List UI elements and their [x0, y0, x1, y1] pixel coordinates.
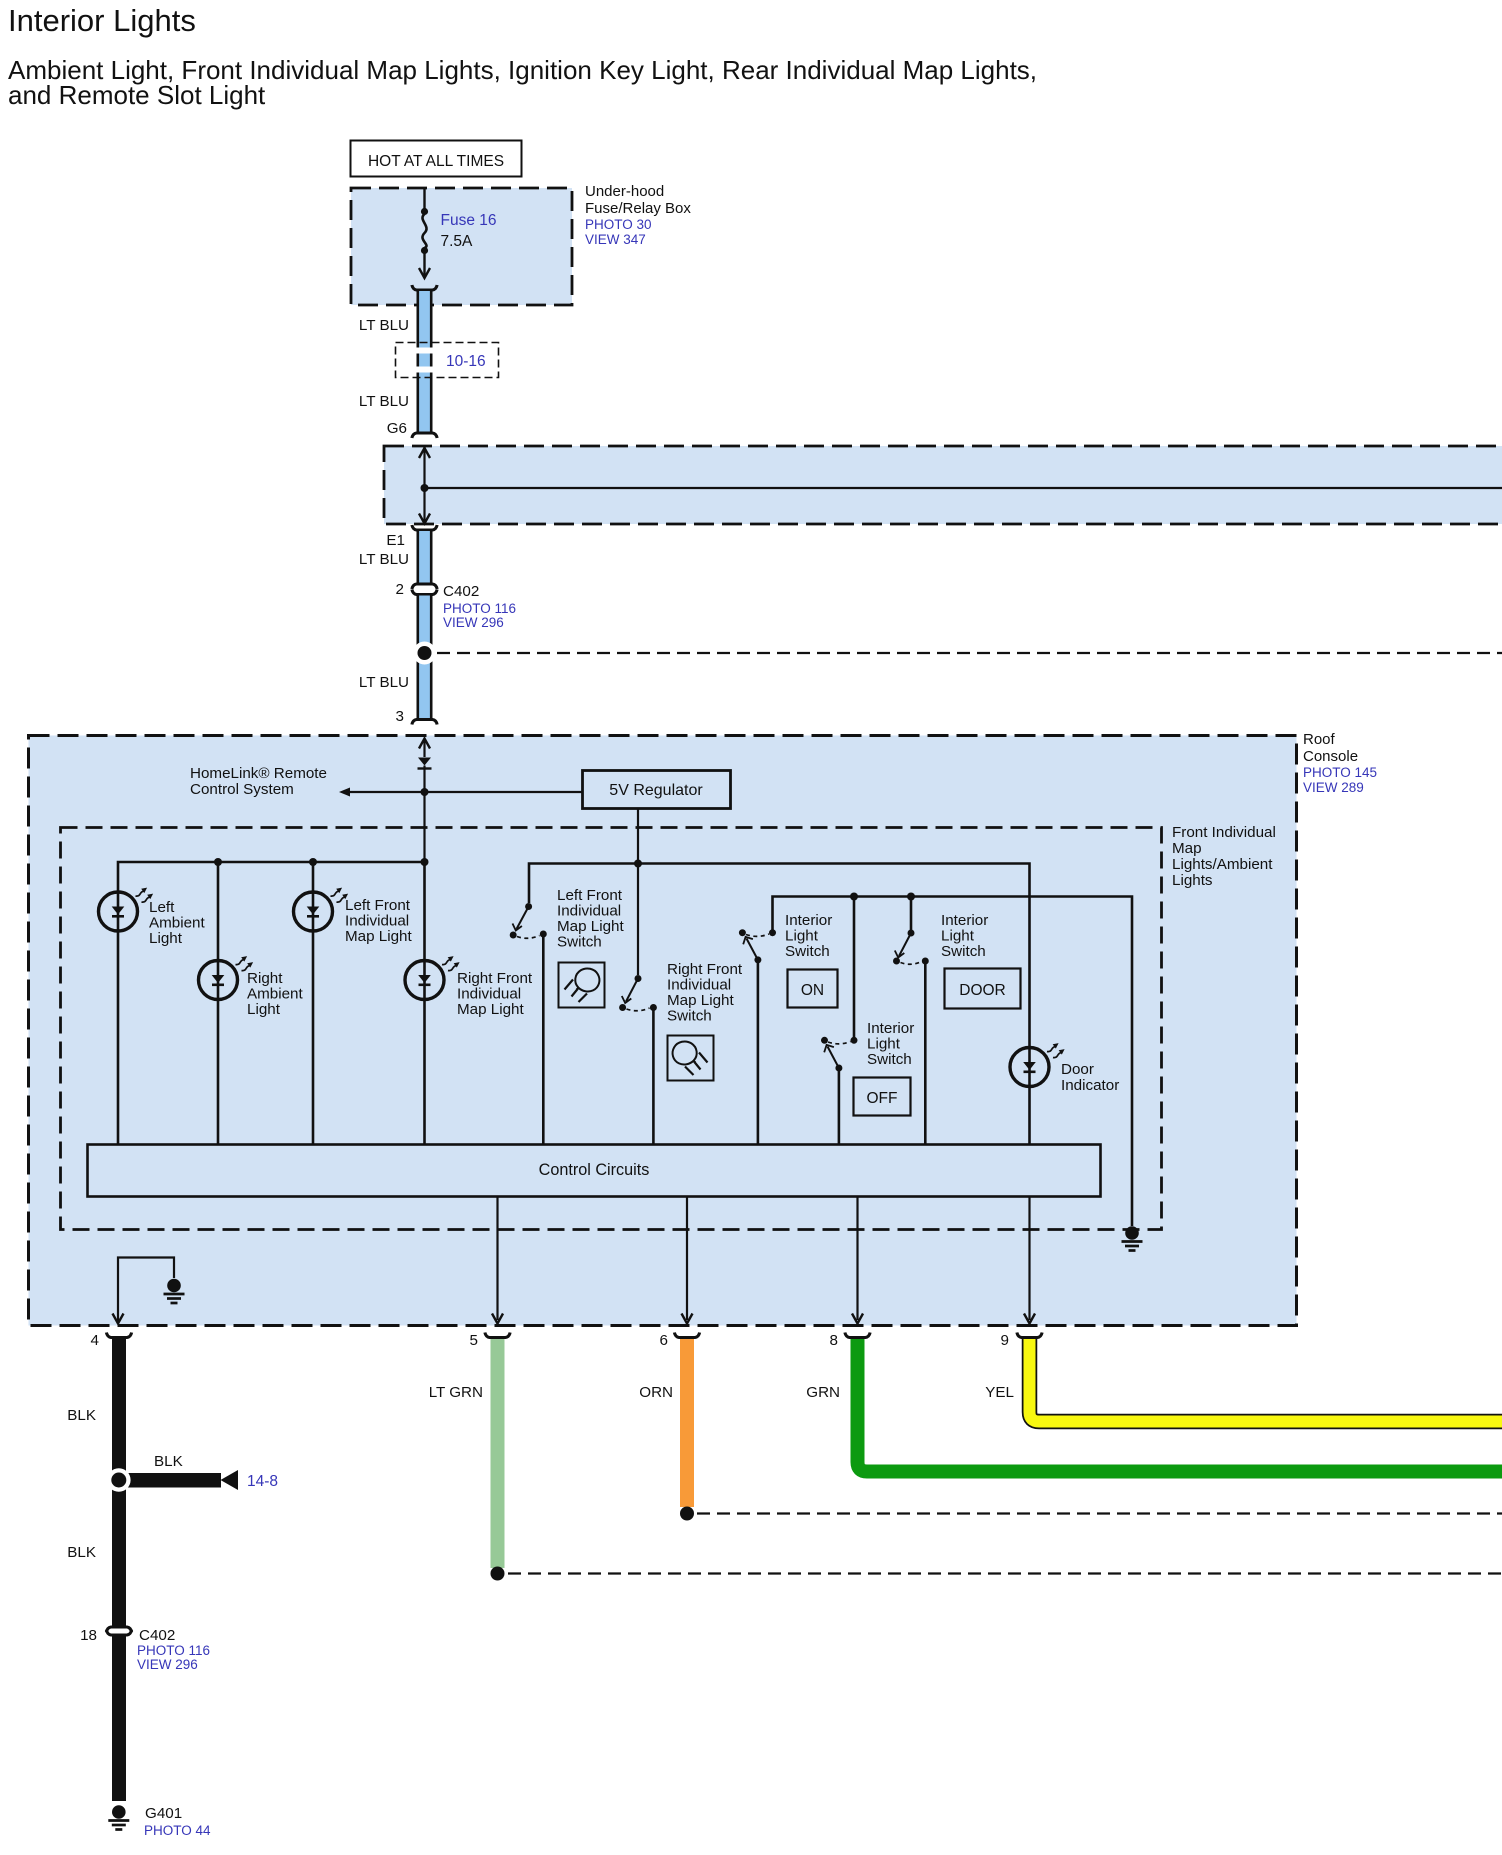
svg-text:Switch: Switch — [867, 1051, 912, 1068]
svg-text:Roof: Roof — [1303, 731, 1336, 748]
switch feed bus — [529, 864, 1030, 1145]
svg-text:Left Front: Left Front — [557, 887, 623, 904]
homelink feed line with arrow — [344, 791, 582, 793]
LT GRN splice dot — [491, 1567, 505, 1581]
svg-text:5V Regulator: 5V Regulator — [609, 782, 703, 799]
svg-text:Light: Light — [247, 1001, 281, 1018]
svg-text:VIEW 347: VIEW 347 — [585, 232, 646, 247]
left front map light switch label — [557, 887, 624, 951]
LED right front individual map light — [405, 956, 460, 999]
splice node dot — [418, 646, 432, 660]
lamp bus (left) — [118, 862, 425, 1144]
dashed wire from ORN splice — [697, 1512, 1502, 1514]
svg-text:Under-hood: Under-hood — [585, 183, 664, 200]
svg-text:VIEW 296: VIEW 296 — [137, 1657, 198, 1672]
svg-text:Light: Light — [867, 1036, 901, 1053]
HOT AT ALL TIMES box — [351, 141, 522, 177]
svg-text:Individual: Individual — [667, 977, 731, 994]
ON box — [788, 970, 838, 1008]
svg-text:Switch: Switch — [785, 943, 830, 960]
svg-text:Light: Light — [149, 930, 183, 947]
svg-text:14-8: 14-8 — [247, 1473, 278, 1490]
main feed wire entering roof console — [419, 739, 430, 749]
ground at switch bus end — [1122, 1226, 1143, 1250]
LED left front individual map light — [294, 888, 349, 931]
internal ground hook — [118, 1258, 174, 1322]
svg-text:Switch: Switch — [557, 934, 602, 951]
svg-text:G401: G401 — [145, 1805, 182, 1822]
interior light switch ON — [739, 929, 776, 963]
CC output wire pin9 — [1028, 1197, 1030, 1320]
svg-text:Interior: Interior — [867, 1020, 914, 1037]
fuse node dot bottom — [421, 247, 428, 254]
HomeLink label — [190, 765, 327, 798]
svg-text:C402: C402 — [139, 1627, 175, 1644]
svg-text:LT BLU: LT BLU — [359, 393, 409, 410]
right map switch icon — [668, 1036, 714, 1081]
switch feed bus junction dot — [634, 860, 642, 868]
connector C402 lower label — [137, 1627, 210, 1672]
svg-text:BLK: BLK — [67, 1407, 96, 1424]
svg-text:Lights/Ambient: Lights/Ambient — [1172, 856, 1273, 873]
svg-text:LT GRN: LT GRN — [429, 1384, 483, 1401]
DOOR box — [945, 969, 1021, 1009]
under-hood fuse/relay box label — [585, 183, 691, 247]
interior light switch ON label — [785, 912, 832, 960]
svg-text:Fuse/Relay Box: Fuse/Relay Box — [585, 200, 691, 217]
svg-text:LT BLU: LT BLU — [359, 317, 409, 334]
svg-text:Interior: Interior — [941, 912, 988, 929]
svg-text:OFF: OFF — [867, 1090, 898, 1107]
dashed wire from LT GRN splice — [508, 1572, 1502, 1574]
wire ORN pin6 — [674, 1333, 699, 1508]
svg-text:Light: Light — [785, 928, 819, 945]
5V regulator output wire — [637, 809, 639, 975]
internal ground symbol — [164, 1279, 185, 1303]
svg-text:BLK: BLK — [67, 1544, 96, 1561]
interior light switch DOOR label — [941, 912, 988, 960]
svg-text:BLK: BLK — [154, 1453, 183, 1470]
branch wires through LEDs — [217, 862, 220, 1144]
CC output wire pin5 — [496, 1197, 498, 1320]
svg-text:Map Light: Map Light — [345, 928, 412, 945]
G6 dash-boundary band — [384, 446, 1502, 524]
svg-text:GRN: GRN — [806, 1384, 840, 1401]
svg-text:Control System: Control System — [190, 781, 294, 798]
svg-text:Individual: Individual — [457, 986, 521, 1003]
LED left ambient light — [99, 888, 154, 931]
under-hood fuse/relay box — [351, 188, 572, 305]
fuse node dot top — [421, 208, 428, 215]
wire BLK to G401 — [112, 1637, 126, 1802]
lamp bus junction dots — [214, 858, 222, 866]
svg-text:ON: ON — [801, 982, 824, 999]
svg-text:Map Light: Map Light — [557, 918, 624, 935]
svg-text:YEL: YEL — [985, 1384, 1014, 1401]
G6 band inner bus line — [425, 487, 1502, 489]
svg-text:Map: Map — [1172, 840, 1202, 857]
svg-text:Right Front: Right Front — [457, 970, 533, 987]
dashed branch wire right from splice — [437, 652, 1502, 654]
svg-text:5: 5 — [470, 1332, 478, 1349]
svg-text:Interior Lights: Interior Lights — [8, 3, 196, 38]
svg-text:G6: G6 — [387, 420, 407, 437]
wire BLK pin4 — [106, 1333, 131, 1628]
svg-text:and Remote Slot Light: and Remote Slot Light — [8, 80, 266, 110]
OFF switch output wire — [838, 1068, 841, 1144]
svg-text:Left: Left — [149, 899, 175, 916]
wire LT BLU pin2 to pin3 — [417, 596, 433, 719]
wire LT BLU E1 to pin2 — [412, 525, 437, 589]
ground G401 — [108, 1805, 129, 1829]
ON switch output wire — [757, 960, 760, 1144]
inner front individual map lights box — [61, 828, 1162, 1230]
svg-text:HomeLink® Remote: HomeLink® Remote — [190, 765, 327, 782]
svg-text:PHOTO 116: PHOTO 116 — [443, 601, 516, 616]
connector C402 lower — [106, 1627, 131, 1635]
roof console label — [1303, 731, 1377, 795]
pin3 wire end cap — [412, 720, 437, 725]
svg-text:Right Front: Right Front — [667, 961, 743, 978]
svg-text:9: 9 — [1001, 1332, 1009, 1349]
svg-text:PHOTO 116: PHOTO 116 — [137, 1643, 210, 1658]
fuse output wire with arrow — [423, 253, 425, 276]
svg-text:6: 6 — [660, 1332, 668, 1349]
interior light switch OFF label — [867, 1020, 914, 1068]
left front map light switch output wire — [542, 934, 545, 1144]
svg-text:Individual: Individual — [557, 903, 621, 920]
fuse F16 element — [422, 214, 426, 248]
svg-text:7.5A: 7.5A — [441, 233, 474, 250]
5V regulator U1 — [583, 771, 731, 809]
svg-text:4: 4 — [91, 1332, 99, 1349]
svg-text:LT BLU: LT BLU — [359, 674, 409, 691]
LED door indicator — [1010, 1043, 1065, 1086]
svg-text:PHOTO 145: PHOTO 145 — [1303, 765, 1377, 780]
svg-text:Console: Console — [1303, 748, 1358, 765]
svg-text:VIEW 296: VIEW 296 — [443, 615, 504, 630]
svg-text:Interior: Interior — [785, 912, 832, 929]
svg-text:Map Light: Map Light — [667, 992, 734, 1009]
ORN splice dot — [680, 1507, 694, 1521]
splice ring junction — [107, 1468, 131, 1492]
svg-text:Front Individual: Front Individual — [1172, 824, 1276, 841]
connector C402 (pin 2) — [412, 590, 437, 595]
LED right ambient light — [199, 956, 254, 999]
inner box label — [1172, 824, 1276, 889]
svg-text:E1: E1 — [386, 532, 405, 549]
svg-text:C402: C402 — [443, 583, 479, 600]
svg-text:10-16: 10-16 — [446, 353, 486, 370]
svg-text:Left Front: Left Front — [345, 897, 411, 914]
svg-text:Individual: Individual — [345, 913, 409, 930]
CC output wire pin6 — [686, 1197, 688, 1320]
svg-text:HOT AT ALL TIMES: HOT AT ALL TIMES — [368, 153, 504, 170]
svg-text:Indicator: Indicator — [1061, 1077, 1119, 1094]
interior switch bus dots — [850, 893, 858, 901]
roof console box — [29, 736, 1297, 1326]
svg-text:PHOTO 44: PHOTO 44 — [144, 1823, 211, 1838]
svg-text:Map Light: Map Light — [457, 1001, 524, 1018]
right front map light switch label — [667, 961, 743, 1025]
control circuits box — [88, 1145, 1101, 1197]
svg-text:Right: Right — [247, 970, 283, 987]
svg-text:Light: Light — [941, 928, 975, 945]
wire YEL pin9 — [1017, 1333, 1502, 1422]
right front map light switch — [619, 975, 657, 1011]
interior light switch OFF — [821, 1037, 858, 1072]
connector C402 label — [443, 583, 516, 630]
svg-text:Control Circuits: Control Circuits — [539, 1161, 650, 1179]
svg-text:Lights: Lights — [1172, 872, 1213, 889]
interior light switch DOOR — [893, 930, 929, 965]
svg-text:8: 8 — [830, 1332, 838, 1349]
wire LT GRN pin5 — [485, 1333, 510, 1569]
svg-text:Switch: Switch — [941, 943, 986, 960]
OFF box — [854, 1078, 911, 1116]
splice node halo — [413, 642, 436, 665]
right front map light switch output wire — [652, 1008, 655, 1145]
svg-text:Ambient: Ambient — [247, 986, 303, 1003]
G6 band vertical wire — [423, 447, 425, 523]
svg-text:Fuse 16: Fuse 16 — [441, 212, 497, 229]
svg-text:DOOR: DOOR — [959, 982, 1006, 999]
interior switch bus — [773, 897, 1133, 1227]
DOOR switch output wire — [924, 961, 927, 1144]
fuse 16 wire — [423, 188, 425, 209]
svg-text:2: 2 — [396, 581, 404, 598]
OFF switch feed wire — [853, 897, 856, 1038]
DOOR switch feed wire — [910, 897, 913, 934]
left map switch icon — [559, 963, 605, 1008]
G401 label — [144, 1805, 211, 1838]
svg-text:ORN: ORN — [639, 1384, 673, 1401]
svg-text:VIEW 289: VIEW 289 — [1303, 780, 1364, 795]
connector 10-16 wire gaps — [415, 348, 434, 354]
svg-text:PHOTO 30: PHOTO 30 — [585, 217, 652, 232]
wire LT BLU fuse to G6 — [412, 285, 437, 438]
BLK branch wire to 14-8 — [126, 1470, 238, 1490]
G6 band junction dot — [421, 484, 429, 492]
svg-text:3: 3 — [396, 708, 404, 725]
svg-text:Door: Door — [1061, 1061, 1094, 1078]
wire GRN pin8 — [845, 1333, 1502, 1472]
svg-text:Switch: Switch — [667, 1008, 712, 1025]
connector 10-16 box — [396, 343, 499, 378]
diode in main feed — [418, 758, 431, 766]
svg-text:LT BLU: LT BLU — [359, 551, 409, 568]
svg-text:18: 18 — [80, 1627, 97, 1644]
svg-text:Ambient: Ambient — [149, 915, 205, 932]
CC output wire pin8 — [856, 1197, 858, 1320]
left front map light switch — [510, 903, 547, 939]
homelink junction dot — [421, 788, 429, 796]
